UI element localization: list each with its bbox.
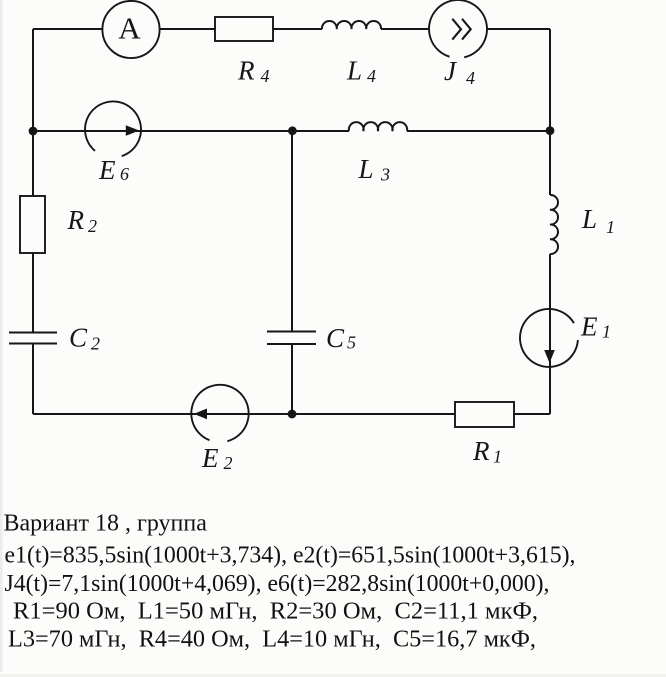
svg-text:R1=90 Ом, L1=50 мГн, R2=30 О: R1=90 Ом, L1=50 мГн, R2=30 Ом, C2=11,1 м… [13,599,538,625]
svg-text:E: E [580,312,598,342]
svg-text:E: E [201,443,219,473]
svg-text:L3=70 мГн, R4=40 Ом, L4=10 м: L3=70 мГн, R4=40 Ом, L4=10 мГн, C5=16,7 … [8,627,536,653]
svg-text:L: L [581,204,597,234]
svg-text:L: L [346,56,362,86]
svg-text:5: 5 [347,333,356,353]
svg-text:R: R [237,56,255,86]
svg-text:e1(t)=835,5sin(1000t+3,734), e: e1(t)=835,5sin(1000t+3,734), e2(t)=651,5… [5,543,576,569]
svg-text:1: 1 [606,217,615,237]
svg-text:2: 2 [224,453,233,473]
svg-text:4: 4 [466,68,475,88]
svg-text:Вариант 18 , группа: Вариант 18 , группа [4,511,208,537]
svg-text:L: L [358,154,374,184]
svg-text:A: A [118,11,141,46]
svg-text:J: J [444,56,458,86]
svg-text:1: 1 [602,322,611,342]
svg-text:2: 2 [91,334,100,354]
svg-text:R: R [67,205,85,235]
svg-text:3: 3 [380,165,390,185]
svg-text:1: 1 [493,447,502,467]
svg-text:C: C [69,323,88,353]
svg-text:6: 6 [120,164,129,184]
svg-text:4: 4 [261,66,270,86]
svg-text:4: 4 [367,66,376,86]
svg-text:J4(t)=7,1sin(1000t+4,069), e6(: J4(t)=7,1sin(1000t+4,069), e6(t)=282,8si… [5,571,550,597]
svg-text:R: R [472,436,490,466]
svg-text:E: E [98,155,116,185]
svg-text:2: 2 [88,216,97,236]
svg-text:C: C [326,323,345,353]
